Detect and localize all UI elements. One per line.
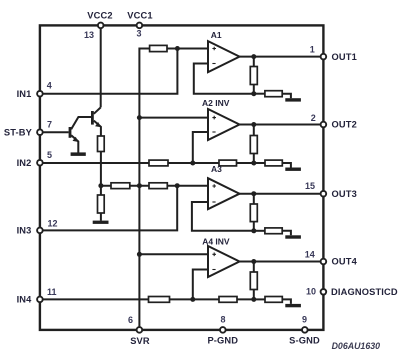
node A4 plus bias junction xyxy=(137,252,142,257)
resistor R12 (A3 feedback) xyxy=(250,204,257,222)
svg-text:8: 8 xyxy=(220,315,225,325)
wire ST-BY to Q1 base xyxy=(40,131,69,133)
svg-text:4: 4 xyxy=(47,80,52,90)
ground (Q1 emitter) xyxy=(71,152,86,156)
pin 13 VCC2 terminal xyxy=(98,23,104,29)
wire A2 output to OUT2 xyxy=(240,124,324,126)
A2 minus mark xyxy=(212,131,215,133)
pin 4 IN1 terminal xyxy=(37,91,43,97)
node A2 divider junction xyxy=(251,161,256,166)
A1 plus mark xyxy=(212,47,216,51)
ground (A1 divider) xyxy=(285,98,301,101)
svg-text:15: 15 xyxy=(305,181,315,191)
ground (bias divider) xyxy=(93,221,109,224)
svg-text:S-GND: S-GND xyxy=(289,336,320,346)
node A4 divider junction xyxy=(251,297,256,302)
wire IN2 row to R4 xyxy=(40,162,149,164)
transistor Q1 collector lead xyxy=(71,117,91,129)
wire A2 divider bottom xyxy=(253,154,255,164)
node bias left junction xyxy=(98,183,103,188)
wire R7 to ground stub xyxy=(282,163,291,168)
svg-text:OUT4: OUT4 xyxy=(332,257,358,267)
wire A4 node to R17 xyxy=(254,298,265,300)
svg-text:IN1: IN1 xyxy=(17,89,32,99)
svg-text:ST-BY: ST-BY xyxy=(4,127,33,137)
pin 15 OUT3 terminal xyxy=(321,191,327,197)
ground (A3 divider) xyxy=(285,235,301,238)
op-amp A2 xyxy=(208,109,240,140)
A1 minus mark xyxy=(212,63,215,65)
pin 14 OUT4 terminal xyxy=(321,259,327,265)
transistor Q2 emitter lead xyxy=(94,121,101,136)
wire A1 node to R3 xyxy=(254,93,265,95)
resistor R7 (A2 to ground) xyxy=(265,160,282,166)
pin 3 VCC1 terminal xyxy=(137,23,143,29)
node A4 output junction xyxy=(251,259,256,264)
wire A1 output to OUT1 xyxy=(240,56,324,58)
svg-text:A3: A3 xyxy=(211,164,222,174)
svg-text:IN3: IN3 xyxy=(17,226,32,236)
node bias SVR junction xyxy=(137,183,142,188)
node A4 minus junction xyxy=(190,297,195,302)
resistor R5 (A2 feedback lower) xyxy=(219,160,237,166)
pin 10 DIAGNOSTICD terminal xyxy=(321,289,327,295)
node A3 divider junction xyxy=(251,228,256,233)
op-amp A3 xyxy=(208,178,240,209)
svg-text:OUT2: OUT2 xyxy=(332,120,357,130)
wire R8 to bias node xyxy=(100,152,102,186)
pin 1 OUT1 terminal xyxy=(321,54,327,60)
resistor R10 (A3 + bias) xyxy=(149,183,167,189)
transistor Q1 emitter arrow xyxy=(73,137,79,142)
wire A2 inverting input xyxy=(193,132,208,163)
wire A2 node to R7 xyxy=(254,162,265,164)
wire R14 to minus node xyxy=(170,298,220,300)
svg-text:A2 INV: A2 INV xyxy=(202,98,230,108)
svg-text:12: 12 xyxy=(48,218,58,228)
transistor Q2 base bar xyxy=(91,111,94,125)
svg-text:SVR: SVR xyxy=(130,336,150,346)
wire SVR bias rail (vertical) with top corner to R1 xyxy=(139,49,149,330)
node A2 output junction xyxy=(251,122,256,127)
svg-text:IN2: IN2 xyxy=(17,158,32,168)
wire A3 divider bottom xyxy=(253,222,255,231)
svg-text:IN4: IN4 xyxy=(17,295,33,305)
svg-text:7: 7 xyxy=(47,119,52,129)
wire R5 to divider node xyxy=(237,162,254,164)
wire SVR to A2 + input xyxy=(139,117,208,119)
wire A4 output to OUT4 xyxy=(240,261,324,263)
svg-text:9: 9 xyxy=(302,315,307,325)
pin 7 ST-BY terminal xyxy=(37,129,43,135)
svg-text:DIAGNOSTICD: DIAGNOSTICD xyxy=(331,287,398,297)
wire R4 to minus node xyxy=(168,162,219,164)
resistor R14 (IN4 input) xyxy=(149,297,170,303)
wire IN3 to A3 + node xyxy=(40,186,177,231)
pin 8 P-GND terminal xyxy=(220,327,226,333)
transistor Q1 emitter lead xyxy=(71,135,78,153)
wire A1 inverting input feedback xyxy=(194,64,254,94)
wire R13 to ground stub xyxy=(282,231,291,236)
svg-text:D06AU1630: D06AU1630 xyxy=(332,341,381,351)
pin 2 OUT2 terminal xyxy=(321,122,327,128)
resistor R17 (A4 to ground) xyxy=(265,297,282,303)
resistor R8 (Q2 emitter) xyxy=(98,136,105,152)
pin 6 SVR terminal xyxy=(137,327,143,333)
node A1 feedback junction xyxy=(251,91,256,96)
resistor R13 (A3 to ground) xyxy=(265,228,282,234)
wire R10 to A3 + node xyxy=(167,185,208,187)
wire IN1 to A1 + node xyxy=(40,49,178,94)
resistor R15 (A4 feedback lower) xyxy=(219,297,237,303)
svg-text:13: 13 xyxy=(84,30,94,40)
wire A3 node to R13 xyxy=(254,230,265,232)
node A2 minus junction xyxy=(190,161,195,166)
wire bias node to R9 and R9 to SVR rail xyxy=(101,185,149,187)
pin 12 IN3 terminal xyxy=(37,228,43,234)
svg-text:OUT3: OUT3 xyxy=(332,189,357,199)
svg-text:P-GND: P-GND xyxy=(207,336,238,346)
wire A4 inverting input xyxy=(193,270,208,300)
resistor R6 (A2 feedback) xyxy=(250,136,257,154)
A3 minus mark xyxy=(212,201,215,203)
svg-text:2: 2 xyxy=(311,113,316,123)
svg-text:3: 3 xyxy=(136,29,141,39)
transistor Q2 collector lead xyxy=(94,107,101,113)
A3 plus mark xyxy=(212,184,216,188)
svg-text:1: 1 xyxy=(310,44,315,54)
transistor Q1 base bar xyxy=(69,127,72,138)
wire A3 output to OUT3 xyxy=(240,193,324,195)
resistor R2 (A1 feedback) xyxy=(250,67,257,85)
svg-text:VCC1: VCC1 xyxy=(127,11,152,21)
IC body outline xyxy=(40,25,324,330)
wire A3 divider top xyxy=(253,194,255,204)
wire A4 divider bottom xyxy=(253,290,255,300)
svg-text:6: 6 xyxy=(128,315,133,325)
ground (A4 divider) xyxy=(285,304,301,307)
wire R17 to ground stub xyxy=(282,299,291,304)
A4 plus mark xyxy=(212,253,216,257)
wire bias node into R11 and stub to ground xyxy=(100,186,102,221)
A4 minus mark xyxy=(212,269,215,271)
pin 11 IN4 terminal xyxy=(37,297,43,303)
wire A4 divider top xyxy=(253,262,255,273)
wire R1 to node A1+ xyxy=(167,48,208,50)
A2 plus mark xyxy=(212,116,216,120)
pin 5 IN2 terminal xyxy=(37,160,43,166)
op-amp A4 xyxy=(208,246,240,277)
wire A1 feedback divider bottom xyxy=(253,85,255,94)
transistor Q2 emitter arrow xyxy=(95,122,101,127)
node A3 output junction xyxy=(251,191,256,196)
svg-text:5: 5 xyxy=(47,150,52,160)
node A2 plus bias junction xyxy=(137,115,142,120)
wire VCC2 drop from pin 13 xyxy=(100,25,102,107)
resistor R1 (A1 + bias) xyxy=(150,45,167,51)
resistor R9 (bias divider) xyxy=(111,183,130,189)
svg-text:A4 INV: A4 INV xyxy=(202,236,230,246)
svg-text:OUT1: OUT1 xyxy=(332,52,357,62)
wire R15 to divider node xyxy=(237,298,254,300)
svg-text:10: 10 xyxy=(306,287,316,297)
svg-text:14: 14 xyxy=(305,250,315,260)
svg-text:A1: A1 xyxy=(211,30,222,40)
resistor R4 (IN2 input) xyxy=(149,160,168,166)
ground (A2 divider) xyxy=(285,168,301,171)
op-amp A1 xyxy=(208,41,240,72)
pin 9 S-GND terminal xyxy=(302,327,308,333)
resistor R16 (A4 feedback) xyxy=(250,272,257,290)
wire A3 inverting input feedback xyxy=(192,202,254,231)
svg-text:VCC2: VCC2 xyxy=(87,11,112,21)
node A3 plus junction xyxy=(175,183,180,188)
svg-text:11: 11 xyxy=(47,287,57,297)
resistor R3 (A1 to ground) xyxy=(265,91,282,97)
node A1 plus junction xyxy=(175,46,180,51)
resistor R11 (bias to ground) xyxy=(98,195,105,213)
node A1 output junction xyxy=(251,54,256,59)
wire IN4 row to R14 xyxy=(40,298,149,300)
wire A1 feedback divider top xyxy=(253,57,255,67)
wire A2 divider top xyxy=(253,125,255,136)
wire R3 to ground stub xyxy=(282,94,291,99)
wire SVR to A4 + input xyxy=(139,253,208,255)
